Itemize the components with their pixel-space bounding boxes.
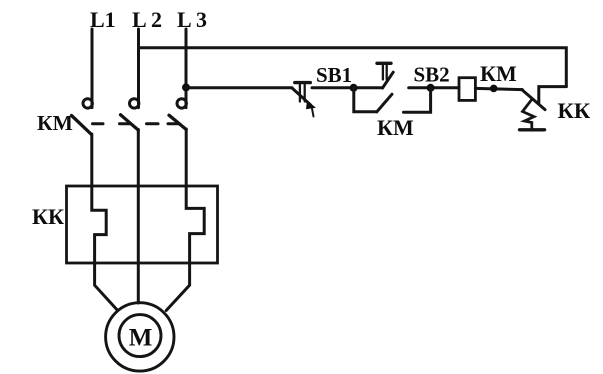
button SB1 contact tail — [312, 109, 314, 117]
contactor KM fixed contact hook phase L3 — [177, 99, 186, 108]
button SB2 plunger cap — [377, 62, 391, 65]
contactor KM fixed contact hook phase L2 — [130, 99, 139, 108]
wire coil to KK contact — [475, 88, 522, 89]
wire L2 supply vertical — [137, 29, 140, 108]
svg-text:L1: L1 — [90, 7, 116, 32]
wire branch down from SB1 junction — [354, 88, 377, 112]
wire phase L3 contact to KK box — [185, 129, 188, 187]
wire SB1 to junction — [312, 86, 354, 89]
wire control branch from L3 to SB1 — [186, 86, 292, 89]
contactor KM auxiliary contact — [377, 94, 392, 112]
thermal relay KK box — [67, 186, 218, 263]
wire SB2 to KM coil — [409, 86, 459, 89]
button SB2 moving contact — [383, 72, 394, 88]
wire control branch from L2 along top — [139, 48, 567, 87]
button SB1 contact arrowhead — [306, 101, 316, 110]
wire phase L1 contact to KK box — [90, 134, 93, 187]
button SB2 plunger stem left — [382, 65, 384, 80]
thermal release squiggle — [523, 100, 535, 129]
wire L1 supply vertical — [91, 29, 94, 108]
wire phase L2 down through KK box to motor — [137, 130, 140, 304]
wire junction to SB2 — [354, 86, 383, 89]
contactor coil KM — [459, 78, 475, 101]
wire aux contact up to SB2 junction — [404, 88, 431, 112]
linkage dash 3 — [147, 122, 159, 125]
motor M outer circle — [106, 303, 174, 371]
svg-text:SB1: SB1 — [316, 63, 352, 87]
thermal contact KK moving arm — [522, 90, 545, 110]
contactor KM moving contact phase L3 — [169, 115, 186, 129]
linkage dash 2 — [120, 122, 131, 125]
svg-text:КМ: КМ — [37, 111, 73, 135]
linkage dash 4 — [168, 122, 179, 125]
wire phase L1 KK box to motor — [95, 263, 117, 310]
svg-text:КМ: КМ — [480, 61, 517, 86]
button SB1 plunger stem left — [299, 84, 301, 102]
node junction at coil output — [490, 85, 498, 93]
thermal release foot bar — [520, 128, 545, 131]
contactor KM moving contact phase L1 — [72, 116, 92, 135]
svg-text:SB2: SB2 — [414, 63, 450, 87]
svg-text:L 2: L 2 — [132, 7, 162, 32]
node junction after SB2 — [427, 84, 435, 92]
wire L3 supply vertical — [185, 29, 188, 108]
KK heater element phase L1 — [92, 187, 106, 264]
svg-text:L 3: L 3 — [177, 7, 207, 32]
motor M inner circle — [119, 315, 161, 357]
button SB1 plunger cap — [295, 81, 311, 84]
linkage dash 1 — [93, 122, 104, 125]
svg-text:М: М — [129, 325, 153, 352]
button SB1 plunger stem right — [304, 84, 306, 102]
svg-text:КК: КК — [558, 98, 591, 123]
KK heater element phase L3 — [186, 187, 204, 264]
node control tap on L3 — [182, 83, 190, 91]
contactor KM moving contact phase L2 — [121, 115, 139, 130]
node junction after SB1 — [350, 84, 358, 92]
button SB1 moving contact — [292, 88, 311, 105]
wire phase L3 KK box to motor — [166, 263, 189, 311]
svg-text:КК: КК — [32, 204, 64, 229]
thermal contact KK right lead — [539, 87, 567, 104]
contactor KM fixed contact hook phase L1 — [83, 99, 92, 108]
svg-text:КМ: КМ — [377, 115, 414, 140]
button SB2 plunger stem right — [386, 65, 388, 80]
